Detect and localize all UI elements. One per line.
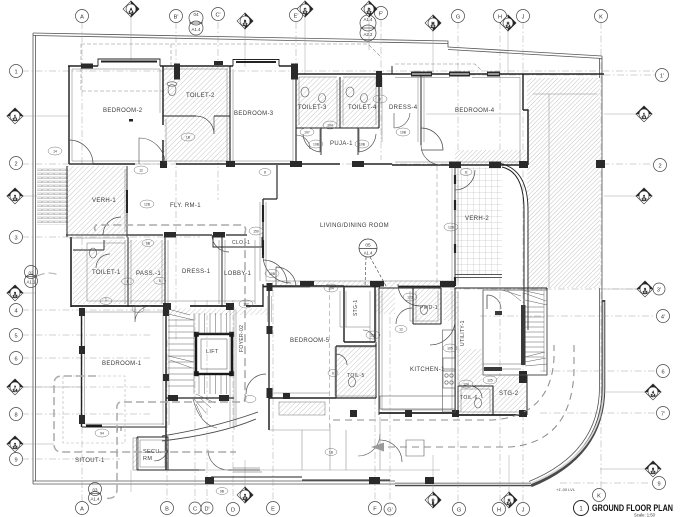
svg-text:4': 4' [661, 315, 665, 321]
pass/dress dividers [128, 237, 222, 307]
svg-text:A1.4: A1.4 [90, 497, 100, 502]
svg-text:G: G [456, 15, 460, 21]
verh-1 left wall [66, 166, 68, 237]
svg-text:2.1: 2.1 [13, 118, 18, 122]
outer top wall toilets3/4 [296, 73, 392, 75]
door bedroom4 [421, 145, 441, 165]
svg-text:9: 9 [14, 458, 17, 464]
secu rm walls [137, 437, 168, 470]
site boundary left [32, 33, 34, 484]
svg-text:BEDROOM-4: BEDROOM-4 [455, 108, 495, 114]
kitchen right wall [454, 288, 456, 415]
grid H [499, 22, 501, 502]
wc toilet1 [90, 248, 97, 258]
bottom wall stg2 block [455, 414, 526, 416]
porch entry details [199, 296, 440, 472]
grid E' [295, 22, 297, 160]
bottom entry wall [133, 438, 139, 470]
svg-text:2: 2 [658, 164, 661, 170]
svg-text:14: 14 [53, 150, 57, 154]
svg-text:GROUND FLOOR PLAN: GROUND FLOOR PLAN [592, 503, 673, 513]
grid 7' right [540, 412, 655, 414]
svg-text:BEDROOM-1: BEDROOM-1 [102, 361, 142, 367]
svg-text:150: 150 [253, 230, 259, 234]
svg-text:02: 02 [29, 271, 34, 276]
kitchen bottom wall [379, 412, 455, 414]
svg-text:H: H [498, 15, 502, 21]
svg-text:1': 1' [660, 74, 664, 80]
svg-text:LIFT: LIFT [206, 349, 219, 355]
svg-text:2.4: 2.4 [651, 394, 656, 398]
toilet-1 hatch [73, 250, 104, 304]
svg-text:104: 104 [328, 287, 334, 291]
svg-text:8: 8 [159, 279, 161, 283]
door toil6 [470, 386, 482, 398]
grid K [600, 22, 602, 488]
left diamonds [7, 108, 23, 452]
grid D' bottom [206, 300, 208, 502]
svg-text:10B: 10B [269, 272, 276, 276]
door toil5 [336, 354, 347, 365]
right diamonds [636, 106, 661, 477]
svg-text:10B: 10B [400, 131, 407, 135]
svg-text:A1.1: A1.1 [26, 280, 36, 285]
svg-text:6B: 6B [146, 242, 151, 246]
door bedroom2 left [69, 140, 93, 164]
grid 3' right [450, 288, 652, 290]
svg-text:SITOUT-1: SITOUT-1 [75, 458, 105, 464]
door bedroom5 top [276, 267, 296, 287]
wc toilet3 [301, 87, 309, 97]
svg-text:STG-2: STG-2 [499, 391, 519, 397]
svg-text:A1.4: A1.4 [363, 17, 373, 22]
svg-text:TOILET-3: TOILET-3 [298, 105, 327, 111]
verh-1 hatch [66, 166, 127, 235]
wall y235 corridor top [128, 234, 247, 236]
svg-text:PUJA-1: PUJA-1 [330, 141, 353, 147]
grid E bottom [272, 290, 274, 502]
grid 1 [22, 70, 658, 72]
svg-text:+1'-00 LVL: +1'-00 LVL [556, 487, 576, 492]
svg-text:122: 122 [407, 296, 413, 300]
kitchen counter [443, 330, 456, 412]
svg-text:2.5: 2.5 [643, 291, 648, 295]
wall toilet2 right / bedroom3 left [229, 66, 231, 164]
svg-text:107: 107 [304, 131, 310, 135]
toilet-1 walls [73, 240, 104, 250]
outer wall top bedroom2/3 [68, 65, 296, 67]
bedroom5 top wall [269, 285, 344, 287]
site boundary bottom [33, 483, 530, 485]
grid 3 [22, 236, 200, 238]
svg-text:B: B [432, 502, 434, 506]
svg-text:6: 6 [332, 372, 334, 376]
verh2 right curved wall [502, 167, 524, 330]
svg-text:TOILET-4: TOILET-4 [348, 105, 377, 111]
bedroom1 left wall [81, 309, 83, 427]
setback top dashed parapet bedroom2 [81, 44, 171, 91]
outer top wall bedroom-4 block [392, 73, 604, 75]
svg-text:8: 8 [14, 413, 17, 419]
toilet3/4 divider [339, 77, 341, 128]
grid 2 [22, 163, 653, 165]
hatch right terrace strip [527, 78, 600, 288]
bedroom4 / verh2 bottom wall [392, 164, 528, 166]
grid 4 [22, 309, 240, 311]
svg-text:10B: 10B [359, 143, 366, 147]
svg-text:2.3: 2.3 [642, 198, 647, 202]
svg-text:2.2: 2.2 [303, 11, 308, 15]
grid B' [175, 22, 177, 340]
columns mid walls [160, 161, 167, 168]
svg-text:2: 2 [14, 162, 17, 168]
bay window bedroom2 top [98, 59, 160, 66]
svg-text:1B: 1B [186, 136, 191, 140]
door toilet1 [96, 254, 110, 268]
svg-text:DRESS-1: DRESS-1 [182, 269, 211, 275]
svg-text:04: 04 [194, 12, 199, 17]
grid F' [380, 20, 382, 160]
svg-text:F': F' [379, 12, 384, 18]
verh1 right wall [126, 166, 128, 237]
svg-text:BEDROOM-2: BEDROOM-2 [103, 108, 143, 114]
svg-text:B: B [165, 507, 169, 513]
living bottom wall [263, 286, 455, 288]
left wall toilet1 block [70, 237, 72, 307]
svg-text:9: 9 [379, 98, 381, 102]
svg-text:D': D' [204, 507, 209, 513]
svg-text:05: 05 [365, 243, 371, 249]
site boundary top [33, 33, 602, 59]
grid C bottom [194, 300, 196, 502]
bottom wall of pass row (y306) [71, 305, 263, 307]
svg-text:1: 1 [105, 298, 107, 302]
svg-text:DRESS-4: DRESS-4 [389, 105, 418, 111]
dress4 right wall [420, 74, 422, 145]
svg-text:FOYER-02: FOYER-02 [239, 325, 245, 352]
door pass1 [212, 235, 229, 252]
svg-text:5: 5 [14, 334, 17, 340]
svg-text:3': 3' [657, 288, 661, 294]
svg-text:E: E [271, 507, 275, 513]
toil-6 hatch [458, 386, 493, 415]
grid 9 [22, 458, 120, 460]
pass-1 hatch [128, 240, 166, 304]
pwd-1 hatch [413, 288, 441, 324]
svg-text:4: 4 [14, 309, 17, 315]
svg-text:1.4: 1.4 [129, 11, 134, 15]
bottom wall of top row (y164) [69, 163, 392, 165]
svg-text:A: A [80, 15, 84, 21]
bedroom3 right wall [295, 66, 297, 164]
svg-text:120: 120 [370, 334, 376, 338]
toil-5 hatch [336, 346, 376, 398]
svg-text:6: 6 [661, 370, 664, 376]
svg-text:2.9: 2.9 [243, 497, 248, 501]
svg-text:RM: RM [143, 456, 152, 462]
door verh2 [455, 170, 475, 190]
svg-text:3: 3 [14, 236, 17, 242]
kitchen left wall [378, 288, 380, 415]
svg-text:CLO.-1: CLO.-1 [232, 240, 250, 246]
grid 7 [22, 386, 150, 388]
svg-text:9B: 9B [220, 490, 225, 494]
kitchen top wall / pwd [379, 288, 441, 324]
svg-text:LOBBY-1: LOBBY-1 [224, 271, 252, 277]
door kitchen [398, 284, 420, 306]
living left windows dark [262, 205, 264, 258]
toilet-2 hatch [164, 67, 230, 162]
svg-text:KITCHEN-1: KITCHEN-1 [410, 367, 445, 373]
grid 5 [22, 334, 150, 336]
living room right wall [454, 165, 456, 284]
grid G [457, 22, 459, 502]
svg-text:VERH-2: VERH-2 [465, 216, 489, 222]
bedroom5 bottom wall [269, 397, 336, 399]
door dress4 [421, 128, 443, 150]
svg-text:B': B' [174, 15, 179, 21]
svg-text:2.5: 2.5 [13, 295, 18, 299]
svg-text:BEDROOM-5: BEDROOM-5 [290, 338, 330, 344]
svg-text:10B: 10B [313, 143, 320, 147]
svg-text:FLY. RM-1: FLY. RM-1 [170, 203, 201, 209]
svg-text:G': G' [387, 508, 392, 514]
corridor hatch above bedroom5 [269, 281, 455, 287]
compound wall dark band bottom right curve [531, 300, 604, 486]
svg-text:102: 102 [243, 303, 249, 307]
basin toilet3 [319, 94, 326, 103]
verh1 bottom wall [66, 234, 128, 236]
counter bottom bedroom5row [380, 396, 455, 409]
clo-1 walls [213, 235, 262, 247]
svg-text:6: 6 [14, 357, 17, 363]
grid A [81, 22, 83, 502]
svg-text:PWD-1: PWD-1 [420, 305, 438, 311]
entrance bottom walls [168, 469, 260, 471]
verh1 right wall dark part [126, 190, 128, 213]
bottom diamonds [237, 487, 517, 508]
svg-text:TOILET-2: TOILET-2 [186, 93, 215, 99]
verh-2 tile [456, 167, 502, 275]
door secu [154, 447, 168, 461]
svg-text:125: 125 [487, 379, 493, 383]
door entry porch [208, 450, 228, 470]
curved drive lines [162, 412, 258, 441]
svg-text:2.4: 2.4 [507, 502, 512, 506]
svg-text:2.5: 2.5 [13, 446, 18, 450]
svg-text:8: 8 [264, 171, 266, 175]
grid F bottom [374, 290, 376, 502]
grid B bottom [166, 340, 168, 502]
svg-text:G: G [457, 508, 461, 514]
svg-text:J: J [522, 15, 525, 21]
lobby right wall [262, 284, 264, 307]
door main entry [263, 255, 291, 283]
door toilet3 [296, 135, 310, 149]
step joining [391, 66, 393, 74]
door utility [430, 320, 455, 345]
svg-text:TOILET-1: TOILET-1 [92, 270, 121, 276]
stg2 top wall at grid 3' [455, 287, 547, 289]
grid D bottom [232, 300, 234, 502]
svg-text:104: 104 [327, 124, 333, 128]
svg-text:C': C' [215, 13, 220, 19]
wc pwd [421, 306, 428, 315]
hatch top-right above bedroom4 [455, 150, 527, 165]
wall inner-face thin lines [69, 69, 544, 467]
toil5 walls [336, 342, 376, 398]
columns lower [163, 303, 171, 310]
top diamonds [123, 1, 516, 31]
wc toil5 [349, 377, 356, 387]
svg-text:Scale: 1:50: Scale: 1:50 [634, 513, 656, 517]
svg-text:F: F [373, 507, 377, 513]
svg-text:K: K [597, 494, 601, 500]
svg-text:D: D [231, 508, 235, 514]
wc toil6 [475, 398, 482, 408]
svg-text:PASS.-1: PASS.-1 [136, 271, 161, 277]
bottom wall bedroom1/sitout [82, 426, 166, 428]
svg-text:BEDROOM-3: BEDROOM-3 [234, 111, 274, 117]
foyer02 wall [166, 397, 234, 399]
grid 6 [22, 357, 150, 359]
toilet2 inner divider [163, 115, 230, 117]
svg-text:H: H [497, 508, 501, 514]
grid 1' right [455, 74, 655, 76]
svg-text:J: J [522, 508, 525, 514]
svg-text:2.5: 2.5 [651, 471, 656, 475]
door pwd [396, 308, 412, 324]
svg-text:94: 94 [100, 432, 104, 436]
toil6 walls [458, 386, 493, 415]
setback dashed top toilets [171, 44, 381, 57]
svg-text:124: 124 [463, 383, 469, 387]
svg-text:03: 03 [93, 488, 98, 493]
wc toilet4 [346, 87, 354, 97]
door verh1 [103, 217, 121, 235]
site boundary right with curve [530, 56, 602, 484]
stair/lift block walls [165, 307, 167, 470]
grid 8 [22, 413, 150, 415]
grid 4' right [480, 315, 655, 317]
door puja left [303, 129, 320, 152]
svg-text:12: 12 [399, 328, 403, 332]
svg-text:TOIL-5: TOIL-5 [347, 373, 365, 379]
svg-text:12: 12 [139, 169, 143, 173]
bedroom4 right wall (grid J) [523, 74, 528, 165]
puja walls [321, 128, 358, 155]
svg-text:12B: 12B [144, 203, 151, 207]
svg-text:STG-1: STG-1 [353, 300, 359, 316]
left outer wall [68, 66, 70, 164]
wall bedroom2/toilet2 divider [162, 66, 164, 164]
svg-text:105: 105 [447, 347, 453, 351]
svg-text:12B: 12B [448, 226, 455, 230]
svg-text:9: 9 [657, 482, 660, 488]
living room left wall [262, 199, 264, 258]
dress4 left wall [378, 74, 380, 128]
svg-text:2.2: 2.2 [431, 25, 436, 29]
svg-text:2.2: 2.2 [367, 11, 372, 15]
stg1 walls [344, 286, 375, 342]
grid G' bottom [389, 290, 391, 502]
toilet-4 hatch [340, 77, 379, 128]
bedroom5 left wall [268, 288, 270, 430]
svg-text:2.4: 2.4 [13, 389, 18, 393]
grid J [522, 22, 524, 502]
svg-text:A: A [80, 507, 84, 513]
grid 6 right [540, 370, 655, 372]
svg-text:LIVING/DINING ROOM: LIVING/DINING ROOM [320, 223, 389, 229]
door lobby arc [263, 260, 287, 284]
svg-text:A1.4: A1.4 [364, 251, 373, 256]
svg-text:1B: 1B [329, 451, 334, 455]
svg-text:2.1: 2.1 [642, 116, 647, 120]
door puja right [359, 129, 376, 152]
svg-text:UTILITY-1: UTILITY-1 [460, 320, 466, 346]
stg2 right wall [527, 288, 547, 415]
svg-text:TOIL-6: TOIL-6 [460, 395, 478, 401]
door bottom right [380, 440, 402, 462]
svg-text:SECU.: SECU. [143, 449, 162, 455]
svg-text:7': 7' [661, 412, 665, 418]
porch columns bottom [211, 477, 390, 480]
svg-text:C: C [193, 507, 197, 513]
door bedroom2 [139, 138, 165, 164]
columns top wall [81, 64, 93, 69]
svg-text:A1.4: A1.4 [191, 27, 201, 32]
svg-text:2.4: 2.4 [506, 25, 511, 29]
svg-text:E': E' [294, 14, 299, 20]
louver strip left [37, 168, 68, 225]
parapet dashed bedroom4 [395, 64, 482, 71]
grid 9 right [560, 482, 650, 484]
svg-text:1: 1 [14, 70, 17, 76]
svg-text:5: 5 [127, 280, 129, 284]
svg-text:A2.2: A2.2 [363, 32, 373, 37]
svg-text:2.3: 2.3 [13, 198, 18, 202]
svg-text:VERH-1: VERH-1 [92, 198, 116, 204]
wc toilet2 [168, 85, 176, 96]
svg-text:2.2: 2.2 [243, 23, 248, 27]
door toilet2 [196, 116, 214, 134]
toilets bottom wall [296, 127, 379, 129]
bay window toilets top [233, 60, 279, 67]
grid C' [217, 22, 219, 200]
svg-text:K: K [599, 15, 603, 21]
toilet-3 hatch [296, 77, 340, 128]
svg-text:8: 8 [465, 171, 467, 175]
